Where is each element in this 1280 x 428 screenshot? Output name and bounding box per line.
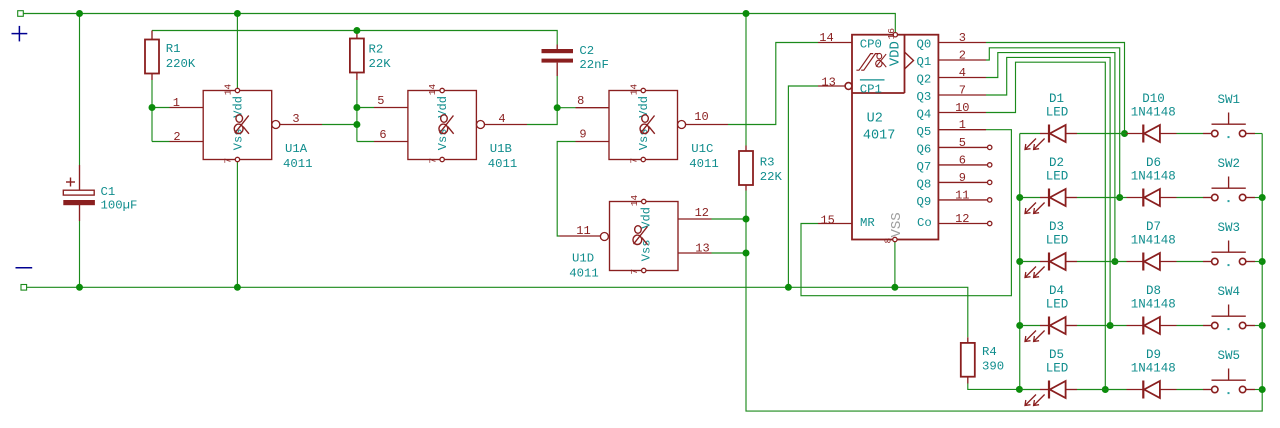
- svg-text:LED: LED: [1046, 170, 1069, 184]
- svg-text:2: 2: [173, 130, 180, 144]
- svg-text:SW3: SW3: [1217, 221, 1240, 235]
- svg-text:22nF: 22nF: [579, 58, 609, 72]
- svg-text:U1B: U1B: [490, 142, 512, 156]
- svg-text:VDD: VDD: [888, 41, 904, 66]
- svg-text:5: 5: [377, 94, 384, 108]
- svg-text:R2: R2: [369, 43, 384, 57]
- svg-text:LED: LED: [1046, 234, 1069, 248]
- svg-text:Vss: Vss: [436, 129, 450, 151]
- svg-text:D7: D7: [1146, 220, 1161, 234]
- svg-text:14: 14: [427, 84, 438, 96]
- svg-text:VSS: VSS: [889, 212, 905, 237]
- svg-text:7: 7: [629, 269, 640, 275]
- svg-text:SW1: SW1: [1217, 93, 1240, 107]
- svg-text:1: 1: [173, 96, 180, 110]
- svg-text:Q2: Q2: [917, 73, 932, 87]
- svg-text:Q5: Q5: [917, 125, 932, 139]
- svg-text:7: 7: [959, 83, 966, 97]
- svg-text:CP1: CP1: [860, 83, 882, 97]
- svg-text:8: 8: [577, 94, 584, 108]
- svg-text:13: 13: [695, 242, 709, 256]
- svg-text:1N4148: 1N4148: [1131, 234, 1176, 248]
- svg-text:Q7: Q7: [917, 160, 932, 174]
- svg-text:D5: D5: [1049, 348, 1064, 362]
- svg-text:4: 4: [959, 66, 966, 80]
- svg-text:1N4148: 1N4148: [1131, 170, 1176, 184]
- svg-text:Q6: Q6: [917, 143, 932, 157]
- svg-text:Q9: Q9: [917, 195, 932, 209]
- svg-text:LED: LED: [1046, 106, 1069, 120]
- svg-text:Q4: Q4: [917, 108, 932, 122]
- svg-text:7: 7: [628, 158, 639, 164]
- svg-text:10: 10: [955, 101, 969, 115]
- svg-text:D6: D6: [1146, 156, 1161, 170]
- svg-text:D2: D2: [1049, 156, 1064, 170]
- svg-text:7: 7: [223, 158, 234, 164]
- svg-text:4: 4: [498, 112, 505, 126]
- svg-text:12: 12: [955, 212, 969, 226]
- svg-text:D1: D1: [1049, 92, 1064, 106]
- svg-text:D4: D4: [1049, 284, 1064, 298]
- svg-text:2: 2: [959, 48, 966, 62]
- svg-text:9: 9: [959, 171, 966, 185]
- svg-text:LED: LED: [1046, 362, 1069, 376]
- svg-text:CP0: CP0: [860, 38, 882, 52]
- svg-text:4011: 4011: [689, 157, 719, 171]
- svg-text:10: 10: [694, 110, 708, 124]
- svg-text:Q8: Q8: [917, 178, 932, 192]
- svg-text:100µF: 100µF: [101, 199, 138, 213]
- svg-text:9: 9: [579, 128, 586, 142]
- svg-text:U1C: U1C: [691, 142, 713, 156]
- svg-text:22K: 22K: [369, 57, 392, 71]
- svg-text:R3: R3: [760, 156, 775, 170]
- svg-text:14: 14: [628, 84, 639, 96]
- svg-text:6: 6: [379, 128, 386, 142]
- svg-text:D3: D3: [1049, 220, 1064, 234]
- svg-text:R1: R1: [166, 42, 181, 56]
- svg-text:3: 3: [292, 112, 299, 126]
- svg-text:C1: C1: [101, 185, 116, 199]
- svg-text:14: 14: [222, 84, 233, 96]
- svg-text:U1D: U1D: [572, 251, 594, 265]
- svg-text:4011: 4011: [569, 267, 599, 281]
- svg-text:1N4148: 1N4148: [1131, 298, 1176, 312]
- svg-text:12: 12: [695, 206, 709, 220]
- svg-text:14: 14: [819, 31, 833, 45]
- svg-text:R4: R4: [982, 345, 997, 359]
- svg-text:1N4148: 1N4148: [1131, 106, 1176, 120]
- svg-text:4017: 4017: [863, 129, 895, 144]
- svg-text:220K: 220K: [166, 57, 196, 71]
- svg-text:Vss: Vss: [231, 129, 245, 151]
- svg-text:Vss: Vss: [637, 129, 651, 151]
- svg-text:1: 1: [959, 118, 966, 132]
- svg-text:U2: U2: [867, 112, 883, 127]
- svg-text:7: 7: [427, 158, 438, 164]
- svg-text:Q3: Q3: [917, 90, 932, 104]
- svg-text:6: 6: [959, 153, 966, 167]
- svg-text:SW4: SW4: [1217, 285, 1240, 299]
- svg-text:Q0: Q0: [917, 38, 932, 52]
- svg-text:SW2: SW2: [1217, 157, 1240, 171]
- svg-text:22K: 22K: [760, 170, 783, 184]
- svg-text:U1A: U1A: [285, 142, 308, 156]
- svg-text:11: 11: [955, 188, 969, 202]
- svg-text:Vdd: Vdd: [639, 207, 653, 229]
- svg-text:15: 15: [820, 213, 834, 227]
- svg-text:1N4148: 1N4148: [1131, 362, 1176, 376]
- svg-text:390: 390: [982, 360, 1004, 374]
- svg-text:4011: 4011: [488, 157, 518, 171]
- svg-text:14: 14: [629, 195, 640, 207]
- svg-text:D10: D10: [1142, 92, 1165, 106]
- svg-text:5: 5: [959, 136, 966, 150]
- svg-text:11: 11: [576, 224, 590, 238]
- svg-text:Q1: Q1: [917, 55, 932, 69]
- svg-text:4011: 4011: [283, 157, 313, 171]
- svg-text:MR: MR: [860, 216, 875, 230]
- svg-text:C2: C2: [579, 44, 594, 58]
- svg-text:LED: LED: [1046, 298, 1069, 312]
- svg-text:3: 3: [959, 31, 966, 45]
- svg-text:D9: D9: [1146, 348, 1161, 362]
- svg-text:16: 16: [886, 28, 897, 40]
- svg-text:D8: D8: [1146, 284, 1161, 298]
- svg-text:SW5: SW5: [1217, 349, 1240, 363]
- svg-text:Co: Co: [917, 216, 932, 230]
- svg-text:13: 13: [821, 76, 835, 90]
